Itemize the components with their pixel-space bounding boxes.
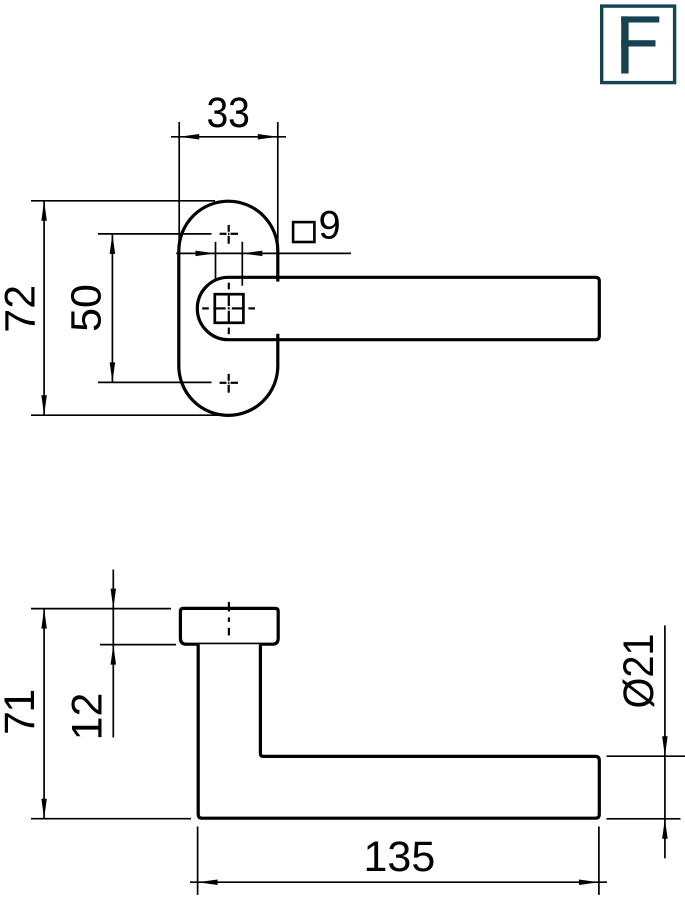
F label box border	[602, 6, 675, 83]
square spindle hole	[215, 294, 244, 323]
side view cap center line	[228, 602, 230, 636]
dim square-9 extension lines	[216, 242, 243, 286]
dim 72 arrows	[41, 201, 47, 221]
top screw hole cross	[220, 225, 238, 244]
square symbol	[293, 222, 314, 242]
dim 72 extension lines	[31, 201, 222, 415]
dim 71 arrows	[41, 609, 47, 629]
dim 135 arrows	[198, 879, 218, 885]
dim dia21 dimension line	[664, 625, 666, 858]
dim 72 dimension line	[43, 201, 45, 415]
spindle vertical center line	[228, 283, 230, 335]
dim 71 extension line lower	[31, 818, 191, 820]
rosette edge stub below lever	[276, 334, 279, 341]
dim 12 extension line lower	[100, 644, 176, 646]
dim 33 extension lines	[179, 122, 278, 250]
F letter top bar	[621, 16, 659, 22]
dim 50 extension lines	[98, 234, 212, 383]
side view cap (rosette profile)	[180, 608, 278, 644]
rosette edge stub above lever	[276, 276, 279, 282]
dim 50 arrows	[110, 234, 116, 254]
rosette oval outline (front view)	[179, 201, 278, 415]
bottom screw hole cross	[220, 374, 238, 393]
dim 33 arrows	[179, 134, 199, 140]
dim square-9 dimension/leader line	[176, 252, 351, 254]
dim 12 line	[112, 570, 114, 738]
side view handle L-profile	[198, 644, 599, 818]
dim square-9 arrows	[196, 251, 216, 257]
dim dia21 arrows	[662, 736, 668, 756]
dim 71 dimension line	[43, 609, 45, 819]
spindle horizontal center line	[202, 307, 255, 309]
dim 135 extension lines	[198, 827, 599, 895]
lever handle (front view)	[197, 277, 599, 339]
dim dia21 extension lines	[607, 756, 685, 819]
dim 50 dimension line	[111, 234, 113, 383]
F letter stem	[621, 16, 628, 73]
dim 12 arrows	[111, 589, 117, 609]
dim 135 dimension line	[190, 881, 607, 883]
dim 33 dimension line	[171, 136, 286, 138]
dim 12 extension line upper	[31, 608, 171, 610]
F letter middle bar	[621, 40, 655, 46]
